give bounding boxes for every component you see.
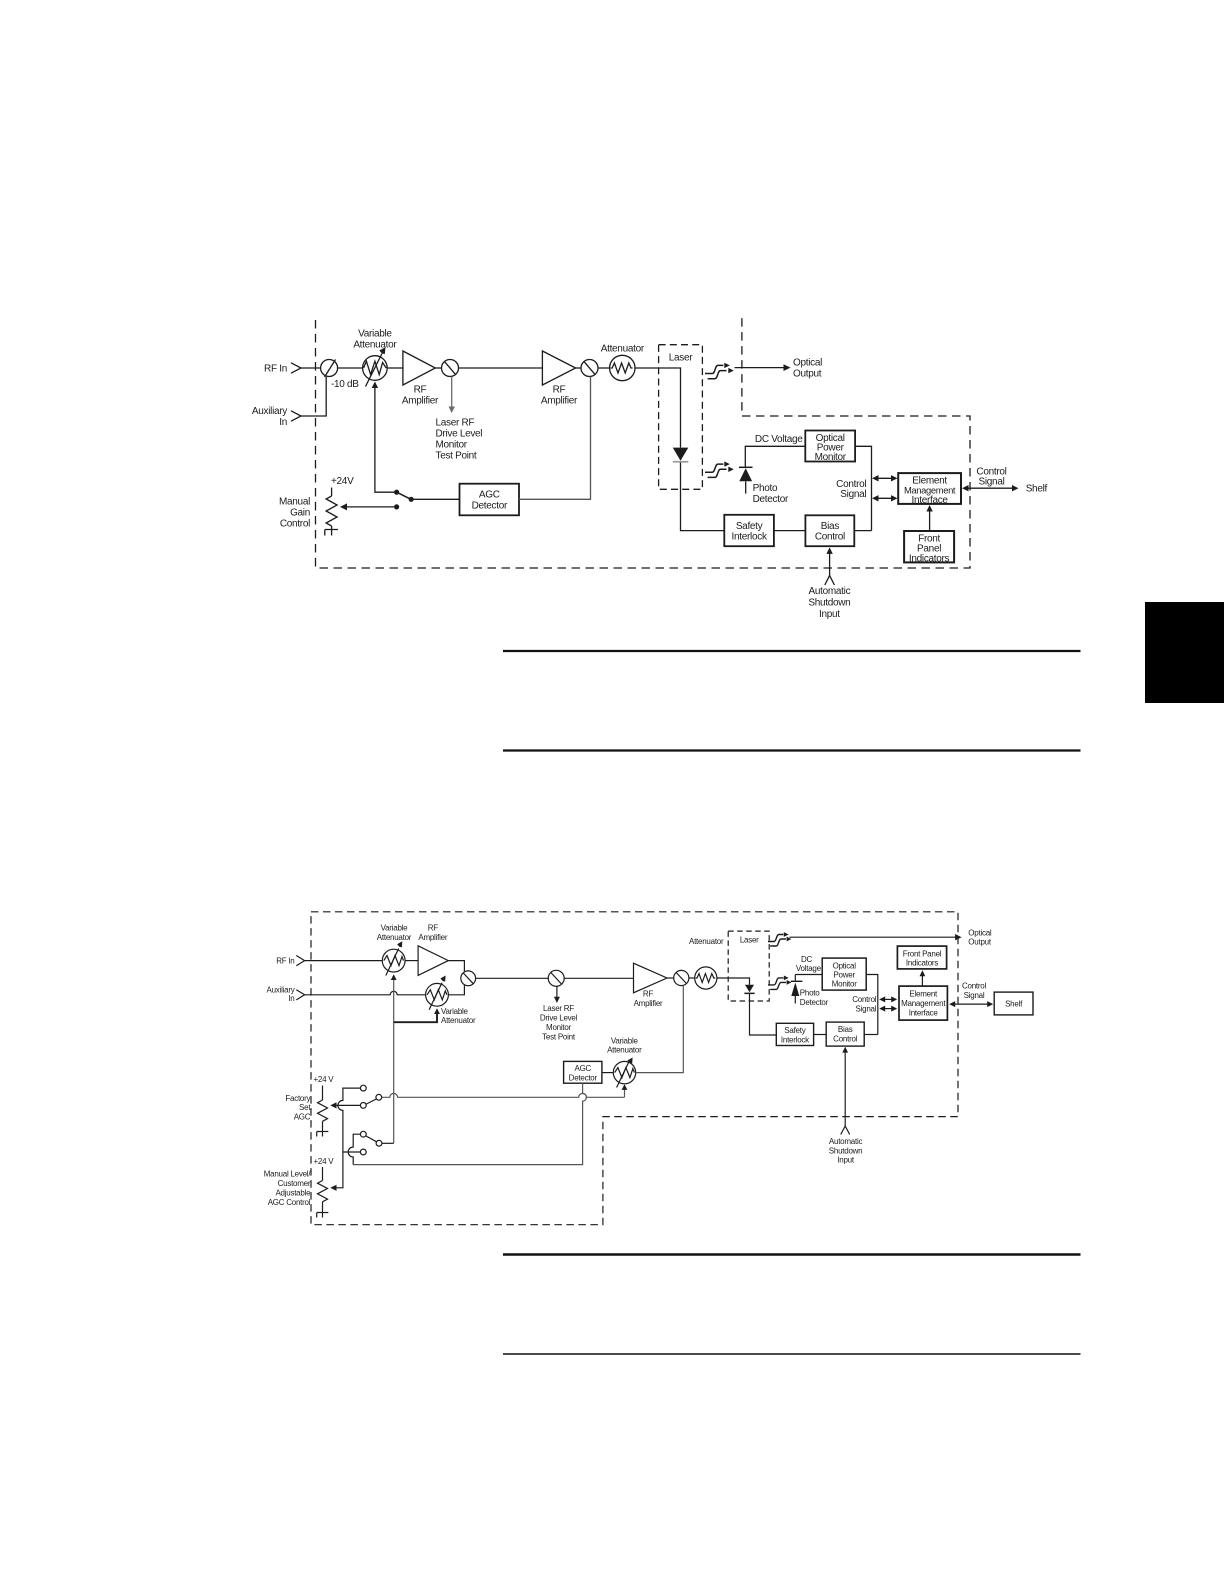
svg-text:Monitor: Monitor	[815, 452, 847, 463]
svg-text:Photo: Photo	[800, 989, 820, 998]
svg-text:Safety: Safety	[736, 521, 763, 532]
svg-text:Power: Power	[833, 971, 855, 980]
svg-text:RF In: RF In	[264, 364, 287, 375]
svg-text:Adjustable: Adjustable	[275, 1188, 311, 1197]
svg-text:Shutdown: Shutdown	[829, 1146, 863, 1155]
svg-text:Manual: Manual	[279, 497, 310, 508]
svg-text:Manual Level/: Manual Level/	[264, 1169, 312, 1178]
svg-text:AGC: AGC	[294, 1112, 311, 1121]
svg-text:In: In	[279, 417, 287, 428]
svg-text:Detector: Detector	[753, 494, 789, 505]
svg-text:Safety: Safety	[784, 1026, 805, 1035]
svg-text:Automatic: Automatic	[829, 1137, 863, 1146]
svg-text:Control: Control	[833, 1035, 858, 1044]
svg-text:Variable: Variable	[611, 1036, 639, 1045]
svg-text:Laser RF: Laser RF	[436, 418, 475, 429]
svg-text:Management: Management	[901, 999, 946, 1008]
svg-text:Variable: Variable	[358, 329, 392, 340]
svg-text:Gain: Gain	[290, 508, 310, 519]
svg-text:Interface: Interface	[909, 1008, 939, 1017]
svg-text:Shelf: Shelf	[1026, 484, 1048, 495]
svg-text:+24 V: +24 V	[314, 1075, 335, 1084]
svg-text:Test Point: Test Point	[542, 1032, 576, 1041]
svg-text:Factory: Factory	[285, 1094, 310, 1103]
svg-text:Interlock: Interlock	[781, 1035, 810, 1044]
svg-text:Monitor: Monitor	[436, 440, 468, 451]
svg-text:Bias: Bias	[821, 521, 840, 532]
svg-text:AGC: AGC	[479, 490, 500, 501]
svg-text:Amplifier: Amplifier	[418, 933, 447, 942]
svg-text:DC: DC	[801, 955, 813, 964]
svg-text:RF: RF	[553, 385, 566, 396]
svg-text:Control: Control	[815, 532, 845, 543]
svg-text:Photo: Photo	[753, 483, 778, 494]
svg-text:Input: Input	[819, 609, 840, 620]
svg-text:Attenuator: Attenuator	[353, 340, 397, 351]
svg-text:Element: Element	[909, 989, 938, 998]
svg-text:AGC Control: AGC Control	[268, 1198, 311, 1207]
svg-text:Test Point: Test Point	[436, 451, 477, 462]
svg-text:Shutdown: Shutdown	[808, 597, 850, 608]
svg-text:Monitor: Monitor	[546, 1023, 572, 1032]
svg-text:Attenuator: Attenuator	[441, 1016, 476, 1025]
svg-text:In: In	[288, 994, 294, 1003]
svg-text:Detector: Detector	[472, 501, 508, 512]
svg-text:Attenuator: Attenuator	[601, 344, 645, 355]
svg-text:Auxiliary: Auxiliary	[252, 406, 287, 417]
svg-text:Laser RF: Laser RF	[543, 1004, 574, 1013]
svg-text:Indicators: Indicators	[906, 959, 938, 968]
svg-text:+24V: +24V	[331, 476, 354, 487]
svg-text:Signal: Signal	[979, 477, 1005, 488]
svg-text:-10 dB: -10 dB	[331, 379, 359, 390]
svg-text:Input: Input	[837, 1156, 855, 1165]
svg-text:RF In: RF In	[276, 956, 294, 965]
svg-text:Front Panel: Front Panel	[903, 949, 942, 958]
svg-text:Interlock: Interlock	[732, 532, 768, 543]
svg-text:Monitor: Monitor	[832, 980, 858, 989]
svg-text:Amplifier: Amplifier	[634, 999, 663, 1008]
svg-text:Detector: Detector	[569, 1074, 598, 1083]
svg-text:Optical: Optical	[833, 961, 857, 970]
svg-text:Control: Control	[280, 519, 310, 530]
svg-text:RF: RF	[414, 385, 427, 396]
svg-text:Amplifier: Amplifier	[402, 396, 439, 407]
svg-text:Amplifier: Amplifier	[541, 396, 578, 407]
svg-text:Bias: Bias	[838, 1025, 853, 1034]
svg-text:Automatic: Automatic	[809, 586, 851, 597]
svg-text:Signal: Signal	[964, 991, 985, 1000]
svg-text:Detector: Detector	[800, 998, 829, 1007]
svg-text:Output: Output	[968, 938, 992, 947]
svg-text:Optical: Optical	[968, 928, 992, 937]
svg-text:Set: Set	[299, 1103, 311, 1112]
svg-text:AGC: AGC	[575, 1064, 592, 1073]
svg-text:Management: Management	[904, 485, 956, 496]
svg-text:Variable: Variable	[441, 1007, 469, 1016]
svg-text:Output: Output	[793, 369, 822, 380]
svg-text:Customer: Customer	[278, 1179, 311, 1188]
svg-text:Voltage: Voltage	[796, 964, 822, 973]
svg-text:+24 V: +24 V	[314, 1157, 335, 1166]
svg-text:Attenuator: Attenuator	[377, 933, 412, 942]
svg-text:Shelf: Shelf	[1005, 1000, 1023, 1009]
svg-text:Interface: Interface	[911, 495, 948, 506]
svg-text:Signal: Signal	[856, 1005, 877, 1014]
svg-text:Attenuator: Attenuator	[607, 1046, 642, 1055]
svg-text:Attenuator: Attenuator	[689, 937, 724, 946]
svg-text:Indicators: Indicators	[909, 554, 950, 565]
svg-text:Variable: Variable	[381, 924, 409, 933]
svg-text:RF: RF	[428, 924, 439, 933]
svg-text:RF: RF	[643, 990, 654, 999]
svg-text:DC Voltage: DC Voltage	[755, 434, 803, 445]
svg-text:Optical: Optical	[793, 358, 822, 369]
svg-text:Control: Control	[852, 995, 877, 1004]
svg-text:Drive Level: Drive Level	[436, 429, 483, 440]
svg-text:Drive Level: Drive Level	[540, 1013, 578, 1022]
svg-text:Laser: Laser	[669, 353, 693, 364]
svg-text:Control: Control	[962, 981, 987, 990]
svg-text:Signal: Signal	[840, 489, 866, 500]
svg-text:Laser: Laser	[740, 935, 759, 944]
